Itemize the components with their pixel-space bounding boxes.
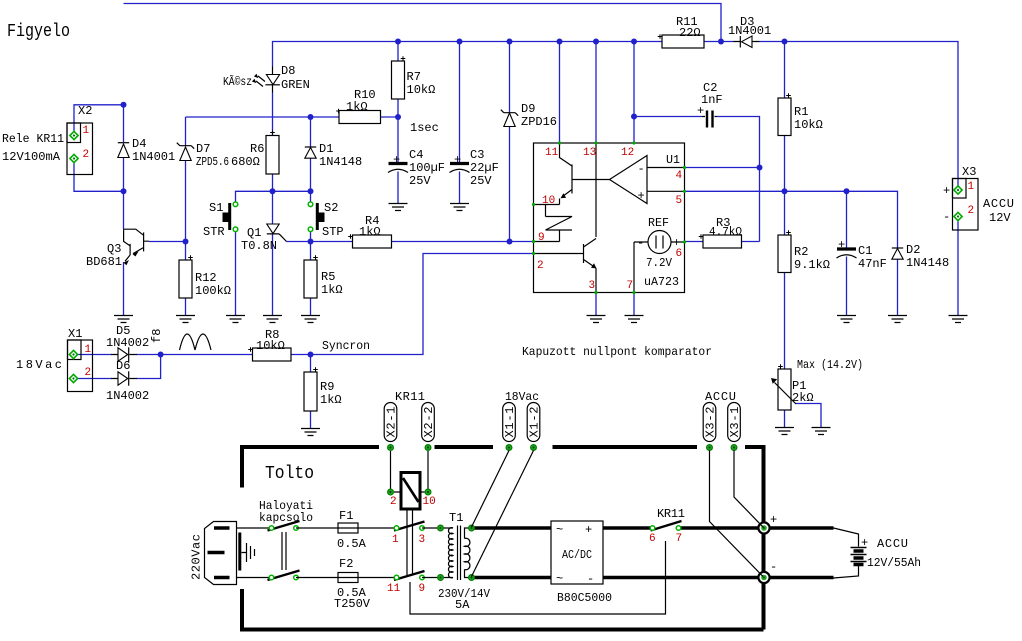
wire rail segment R11 to D3	[704, 41, 734, 43]
svg-text:T250V: T250V	[334, 597, 371, 611]
svg-text:T0.8N: T0.8N	[241, 239, 277, 253]
ground under S1	[226, 316, 245, 323]
ground IC pin3	[587, 316, 606, 323]
U1 pin4 inner lead	[647, 167, 685, 169]
svg-text:D8: D8	[281, 64, 295, 78]
Tolto box outline	[242, 447, 764, 630]
svg-text:2: 2	[390, 496, 397, 508]
wire R10 right to R7/C4 node	[381, 116, 399, 118]
svg-text:4: 4	[676, 170, 683, 182]
wire pill X2-2 to coil pin10	[427, 451, 429, 489]
pill connector X3-1	[728, 403, 741, 442]
svg-text:C3: C3	[470, 148, 484, 162]
wire X3-1 pill to plus terminal	[734, 451, 764, 528]
wire IC pin 12	[633, 42, 635, 144]
wire X1 pin1 to D5	[74, 354, 112, 356]
ground under C4	[389, 204, 408, 211]
wire Syncron net to IC pin 2	[311, 254, 534, 355]
resistor R11	[662, 35, 704, 48]
svg-text:2: 2	[537, 260, 544, 272]
relay contact KR11 6-7	[651, 521, 682, 531]
wire X1 pin2 to D6	[74, 378, 112, 380]
svg-text:9.1kΩ: 9.1kΩ	[794, 258, 830, 272]
svg-text:R5: R5	[321, 270, 335, 284]
wire D4 stubs	[123, 105, 125, 192]
svg-text:25V: 25V	[470, 174, 492, 188]
wire contacts to transformer	[422, 528, 441, 578]
wire X3 pin2 to ground	[957, 217, 959, 316]
wire R2 stubs and to P1	[784, 191, 786, 369]
wire S1 bottom to ground	[235, 230, 237, 316]
relay contact 11-9	[394, 571, 425, 580]
diode D3	[734, 41, 760, 43]
svg-text:KR11: KR11	[395, 390, 425, 404]
battery terminal -	[758, 572, 769, 583]
switch S2	[316, 203, 319, 230]
fuse F1	[338, 523, 358, 533]
wire pill X2-1 to coil pin2	[390, 451, 392, 489]
svg-text:+: +	[770, 513, 777, 527]
svg-text:13: 13	[583, 147, 596, 159]
wire X3-2 pill to minus terminal	[710, 451, 764, 577]
ground under P1	[775, 428, 794, 435]
svg-text:9: 9	[419, 583, 426, 595]
svg-text:10kΩ: 10kΩ	[407, 83, 436, 97]
ground under R9	[301, 429, 320, 436]
svg-text:S1: S1	[209, 201, 223, 215]
resistor R4	[353, 235, 392, 248]
wire X1-1 pill to secondary top	[472, 451, 510, 528]
diode D6	[111, 378, 137, 380]
wire X2 pin2 to D4 bottom node	[74, 159, 124, 192]
wire Q3 emitter to ground	[123, 262, 125, 316]
svg-text:-: -	[637, 236, 644, 250]
wire C1 stubs	[846, 191, 848, 315]
U1 reference REF 7.2V	[648, 231, 671, 254]
wire X2 pin1 to D4 node	[74, 105, 124, 136]
bridge rectifier AC/DC B80C5000	[551, 521, 603, 584]
wire Q1 bottom to ground	[272, 234, 274, 316]
svg-text:3: 3	[419, 534, 426, 546]
svg-text:100kΩ: 100kΩ	[195, 284, 231, 298]
transformer T1	[441, 528, 454, 578]
wire D7 top	[185, 117, 187, 146]
wire R3 right	[742, 241, 760, 243]
svg-text:1N4001: 1N4001	[132, 150, 175, 164]
U1 internal zener	[534, 205, 573, 242]
ground under Q3	[114, 316, 133, 323]
svg-text:X1-2: X1-2	[527, 407, 541, 438]
U1 error amplifier triangle	[610, 156, 648, 204]
ground under C1	[837, 316, 856, 323]
svg-text:47nF: 47nF	[858, 257, 887, 271]
ground P1 wiper	[812, 428, 831, 435]
svg-text:Rele KR11: Rele KR11	[2, 132, 64, 146]
led D8	[272, 67, 274, 93]
svg-text:R7: R7	[407, 70, 421, 84]
pill connector X2-2	[422, 403, 435, 442]
wire R12 stubs	[185, 242, 187, 316]
svg-text:STR: STR	[203, 225, 225, 239]
mains switch Haloyati kapcsolo	[268, 521, 300, 580]
wire S2 stubs	[310, 191, 312, 241]
op-amp U1 uA723 box	[534, 143, 685, 293]
svg-text:ACCU: ACCU	[705, 390, 736, 404]
transistor Q3	[124, 229, 149, 241]
wire fuses to relay contacts	[358, 528, 397, 578]
U1 series pass transistor	[560, 143, 573, 166]
orientation marks	[336, 109, 341, 114]
thick DC wires	[603, 528, 834, 578]
svg-text:10: 10	[423, 496, 436, 508]
svg-text:5A: 5A	[455, 598, 470, 612]
svg-text:6: 6	[676, 248, 683, 260]
svg-text:1N4148: 1N4148	[906, 256, 949, 270]
svg-text:X3: X3	[962, 165, 976, 179]
svg-text:ZPD5.6: ZPD5.6	[196, 155, 229, 169]
wire C2 right down to R3 right and pin 4	[717, 117, 760, 242]
relay contact linkage	[407, 511, 666, 615]
svg-text:6: 6	[649, 533, 656, 545]
svg-text:GREN: GREN	[281, 78, 310, 92]
thick secondary wires	[472, 528, 552, 578]
svg-text:1: 1	[392, 534, 399, 546]
svg-text:D7: D7	[196, 142, 210, 156]
svg-text:f8: f8	[150, 329, 164, 343]
svg-text:D4: D4	[132, 137, 146, 151]
svg-text:C1: C1	[858, 244, 872, 258]
svg-text:1kΩ: 1kΩ	[320, 393, 342, 407]
svg-text:U1: U1	[666, 153, 680, 167]
svg-text:ZPD16: ZPD16	[521, 115, 557, 129]
svg-text:Kapuzott nullpont komparator: Kapuzott nullpont komparator	[522, 345, 712, 359]
svg-text:11: 11	[545, 147, 559, 159]
wire rail D3 to X3 pin1	[760, 42, 959, 191]
svg-text:D2: D2	[906, 243, 920, 257]
svg-text:Tolto: Tolto	[265, 464, 314, 484]
resistor R8	[253, 348, 292, 361]
U1 internal vertical pin13 to output transistor	[595, 143, 597, 237]
wire Q3 base	[149, 241, 186, 243]
svg-text:1kΩ: 1kΩ	[321, 283, 343, 297]
zener D7	[180, 147, 191, 161]
capacitor C3	[450, 162, 469, 165]
pill connector X2-1	[384, 403, 397, 442]
svg-text:D1: D1	[319, 142, 333, 156]
connector X2	[67, 123, 93, 175]
wire Q1 gate node to R4	[287, 241, 353, 243]
resistor R2	[778, 235, 791, 273]
resistor R7	[392, 61, 405, 99]
svg-text:1N4001: 1N4001	[728, 24, 771, 38]
wire X1-2 pill to secondary bottom	[472, 451, 534, 577]
svg-text:25V: 25V	[409, 174, 431, 188]
svg-text:1N4148: 1N4148	[319, 155, 362, 169]
svg-text:BD681: BD681	[86, 255, 122, 269]
zener D9	[504, 113, 515, 127]
svg-text:X2-1: X2-1	[384, 407, 398, 438]
ground under R12	[176, 316, 195, 323]
resistor R9	[304, 372, 317, 411]
svg-text:680Ω: 680Ω	[231, 155, 260, 169]
ground under Q1	[263, 316, 282, 323]
svg-text:1sec: 1sec	[410, 121, 439, 135]
wire D9 stubs	[509, 42, 511, 242]
svg-text:ACCU: ACCU	[877, 537, 908, 551]
svg-text:B80C5000: B80C5000	[557, 591, 612, 605]
svg-text:X2-2: X2-2	[422, 407, 436, 438]
wire main V+ rail y=41.5	[273, 42, 663, 67]
svg-text:R1: R1	[794, 105, 808, 119]
svg-text:1N4002: 1N4002	[106, 336, 149, 350]
svg-text:1nF: 1nF	[701, 93, 723, 107]
wire R1 stubs	[784, 42, 786, 192]
svg-text:12: 12	[621, 147, 634, 159]
svg-text:9: 9	[538, 232, 545, 244]
svg-text:R12: R12	[195, 271, 217, 285]
svg-text:1kΩ: 1kΩ	[346, 100, 368, 114]
svg-text:+: +	[454, 153, 461, 167]
svg-text:0.5A: 0.5A	[337, 537, 367, 551]
svg-text:4.7kΩ: 4.7kΩ	[709, 225, 742, 239]
svg-text:Syncron: Syncron	[322, 339, 370, 353]
svg-text:3: 3	[589, 280, 596, 292]
connector X3	[953, 179, 979, 231]
wire R9 stubs	[310, 355, 312, 429]
wire D8 to R6	[272, 93, 274, 136]
svg-text:1: 1	[968, 181, 975, 193]
svg-text:Q3: Q3	[107, 242, 121, 256]
pill connector X3-2	[703, 403, 716, 442]
wire R8 right to R9 node	[291, 354, 311, 356]
battery terminal +	[758, 522, 769, 533]
wire row y=117 D7 to R10	[186, 116, 340, 118]
svg-text:T1: T1	[449, 511, 463, 525]
svg-text:+: +	[638, 189, 645, 203]
svg-text:12V/55Ah: 12V/55Ah	[867, 556, 921, 570]
svg-text:22Ω: 22Ω	[679, 26, 701, 40]
svg-text:Q1: Q1	[247, 226, 261, 240]
sine symbol	[180, 334, 212, 350]
wire Q3 collector	[123, 191, 125, 229]
svg-text:-: -	[943, 210, 950, 224]
svg-text:kapcsolo: kapcsolo	[259, 511, 313, 525]
svg-text:18Vac: 18Vac	[505, 390, 539, 404]
ground IC pin7	[625, 316, 644, 323]
svg-text:7.2V: 7.2V	[646, 256, 673, 270]
svg-text:100µF: 100µF	[409, 161, 445, 175]
svg-text:R6: R6	[250, 142, 264, 156]
svg-text:C4: C4	[409, 148, 423, 162]
thyristor Q1	[267, 224, 279, 234]
pill connector X1-2	[527, 403, 540, 442]
wire IC pin3 to ground	[595, 293, 597, 316]
capacitor C2	[707, 111, 713, 128]
svg-text:-: -	[770, 560, 777, 574]
svg-text:10: 10	[542, 195, 555, 207]
wire C3 stubs	[459, 42, 461, 204]
svg-text:-: -	[587, 572, 594, 586]
plug earth symbol	[242, 543, 255, 562]
wire P1 wiper to ground	[796, 404, 822, 428]
svg-text:+: +	[585, 523, 592, 537]
wire R4 to pin 9	[392, 241, 534, 243]
wire pin 5 row to D2	[685, 191, 898, 247]
svg-text:KÃ©sz: KÃ©sz	[223, 74, 252, 89]
mains plug 220Vac	[205, 522, 237, 585]
svg-text:ACCU: ACCU	[983, 197, 1014, 211]
relay contact 1-3	[394, 522, 425, 531]
svg-text:12V100mA: 12V100mA	[2, 150, 61, 164]
svg-text:7: 7	[627, 280, 634, 292]
svg-text:F1: F1	[339, 509, 353, 523]
capacitor C1	[837, 247, 856, 250]
wire IC pin7 to ground	[633, 293, 635, 316]
wire IC pin 13	[595, 42, 597, 144]
svg-text:1: 1	[85, 344, 92, 356]
svg-text:2: 2	[968, 205, 975, 217]
svg-text:Figyelo: Figyelo	[7, 22, 70, 42]
svg-text:X3-2: X3-2	[703, 407, 717, 438]
ground under D2	[888, 316, 907, 323]
svg-text:+: +	[838, 238, 845, 252]
resistor R5	[304, 260, 317, 298]
wire D1 stubs	[310, 117, 312, 191]
svg-text:2: 2	[85, 367, 92, 379]
wire R7 stubs	[397, 42, 399, 118]
resistor R12	[179, 260, 192, 298]
svg-text:R9: R9	[320, 380, 334, 394]
svg-text:X1-1: X1-1	[503, 407, 517, 438]
svg-text:D6: D6	[116, 359, 130, 373]
svg-text:7: 7	[676, 533, 683, 545]
resistor R3	[703, 235, 742, 248]
wire D5 out	[137, 354, 253, 356]
wire D7 bottom to base node	[185, 161, 187, 242]
resistor R6	[266, 136, 279, 175]
wire pin 4	[685, 167, 760, 169]
svg-text:D9: D9	[521, 102, 535, 116]
svg-text:10kΩ: 10kΩ	[794, 118, 823, 132]
svg-text:10kΩ: 10kΩ	[256, 339, 285, 353]
svg-text:~: ~	[556, 572, 563, 586]
svg-text:KR11: KR11	[657, 507, 685, 521]
ground under X3 pin2	[949, 316, 968, 323]
svg-text:1N4002: 1N4002	[106, 389, 149, 403]
svg-text:11: 11	[387, 583, 401, 595]
svg-text:~: ~	[556, 523, 563, 537]
wire R5 stubs	[310, 242, 312, 316]
relay coil KR11	[401, 473, 420, 510]
svg-text:5: 5	[676, 195, 683, 207]
fuse F2	[338, 573, 358, 583]
svg-text:Max (14.2V): Max (14.2V)	[797, 358, 863, 372]
svg-text:X1: X1	[68, 327, 82, 341]
svg-text:220Vac: 220Vac	[190, 534, 204, 580]
svg-text:S2: S2	[324, 201, 338, 215]
wire switch to fuses	[296, 528, 338, 578]
svg-text:22µF: 22µF	[470, 161, 499, 175]
svg-text:R2: R2	[794, 245, 808, 259]
U1 output lead	[572, 179, 610, 181]
wire plug to mains switch	[237, 528, 272, 578]
U1 pin5 inner lead	[647, 190, 685, 192]
svg-text:1: 1	[83, 125, 90, 137]
svg-text:F2: F2	[339, 557, 353, 571]
diode D1	[305, 148, 316, 159]
wire P1 bottom to ground	[784, 410, 786, 427]
wire C2 left to pin12 net	[634, 116, 702, 118]
svg-text:+: +	[393, 153, 400, 167]
svg-text:18Vac: 18Vac	[16, 358, 62, 372]
pill connector X1-1	[503, 403, 516, 442]
svg-text:+: +	[943, 184, 950, 198]
U1 output transistor	[534, 253, 584, 255]
diode D5	[111, 354, 137, 356]
ground under R5	[301, 316, 320, 323]
svg-text:2: 2	[83, 149, 90, 161]
svg-text:uA723: uA723	[644, 275, 679, 289]
capacitor C4	[389, 162, 408, 165]
U1 pin pads	[532, 141, 686, 294]
diode D4	[118, 144, 129, 158]
external battery ACCU 12V/55Ah	[834, 528, 859, 578]
svg-text:2kΩ: 2kΩ	[792, 391, 814, 405]
resistor R10	[339, 111, 381, 124]
connector X1	[68, 340, 93, 392]
svg-text:AC/DC: AC/DC	[562, 548, 592, 562]
wire top rail from D4 node to D3 node	[124, 4, 722, 42]
svg-text:X2: X2	[78, 104, 92, 118]
svg-text:-: -	[638, 162, 645, 176]
diode D2	[892, 249, 903, 260]
potentiometer P1	[778, 369, 791, 410]
svg-text:12V: 12V	[989, 211, 1011, 225]
ground under C3	[450, 204, 469, 211]
wire IC pin 11	[559, 42, 561, 144]
svg-text:X3-1: X3-1	[728, 407, 742, 438]
wire R6 bottom to Q1 top	[272, 174, 274, 224]
wire D2 bottom	[897, 260, 899, 316]
wire S1-S2 top row	[236, 191, 311, 204]
wire D6 out up to node	[137, 355, 161, 379]
svg-text:STP: STP	[322, 225, 344, 239]
wire C4 stubs	[397, 117, 399, 204]
svg-text:REF: REF	[648, 216, 669, 230]
resistor R1	[778, 98, 791, 136]
wire pin 6 to R3	[685, 241, 703, 243]
svg-text:1kΩ: 1kΩ	[359, 225, 381, 239]
svg-text:+: +	[861, 536, 868, 550]
switch S1	[228, 203, 231, 230]
